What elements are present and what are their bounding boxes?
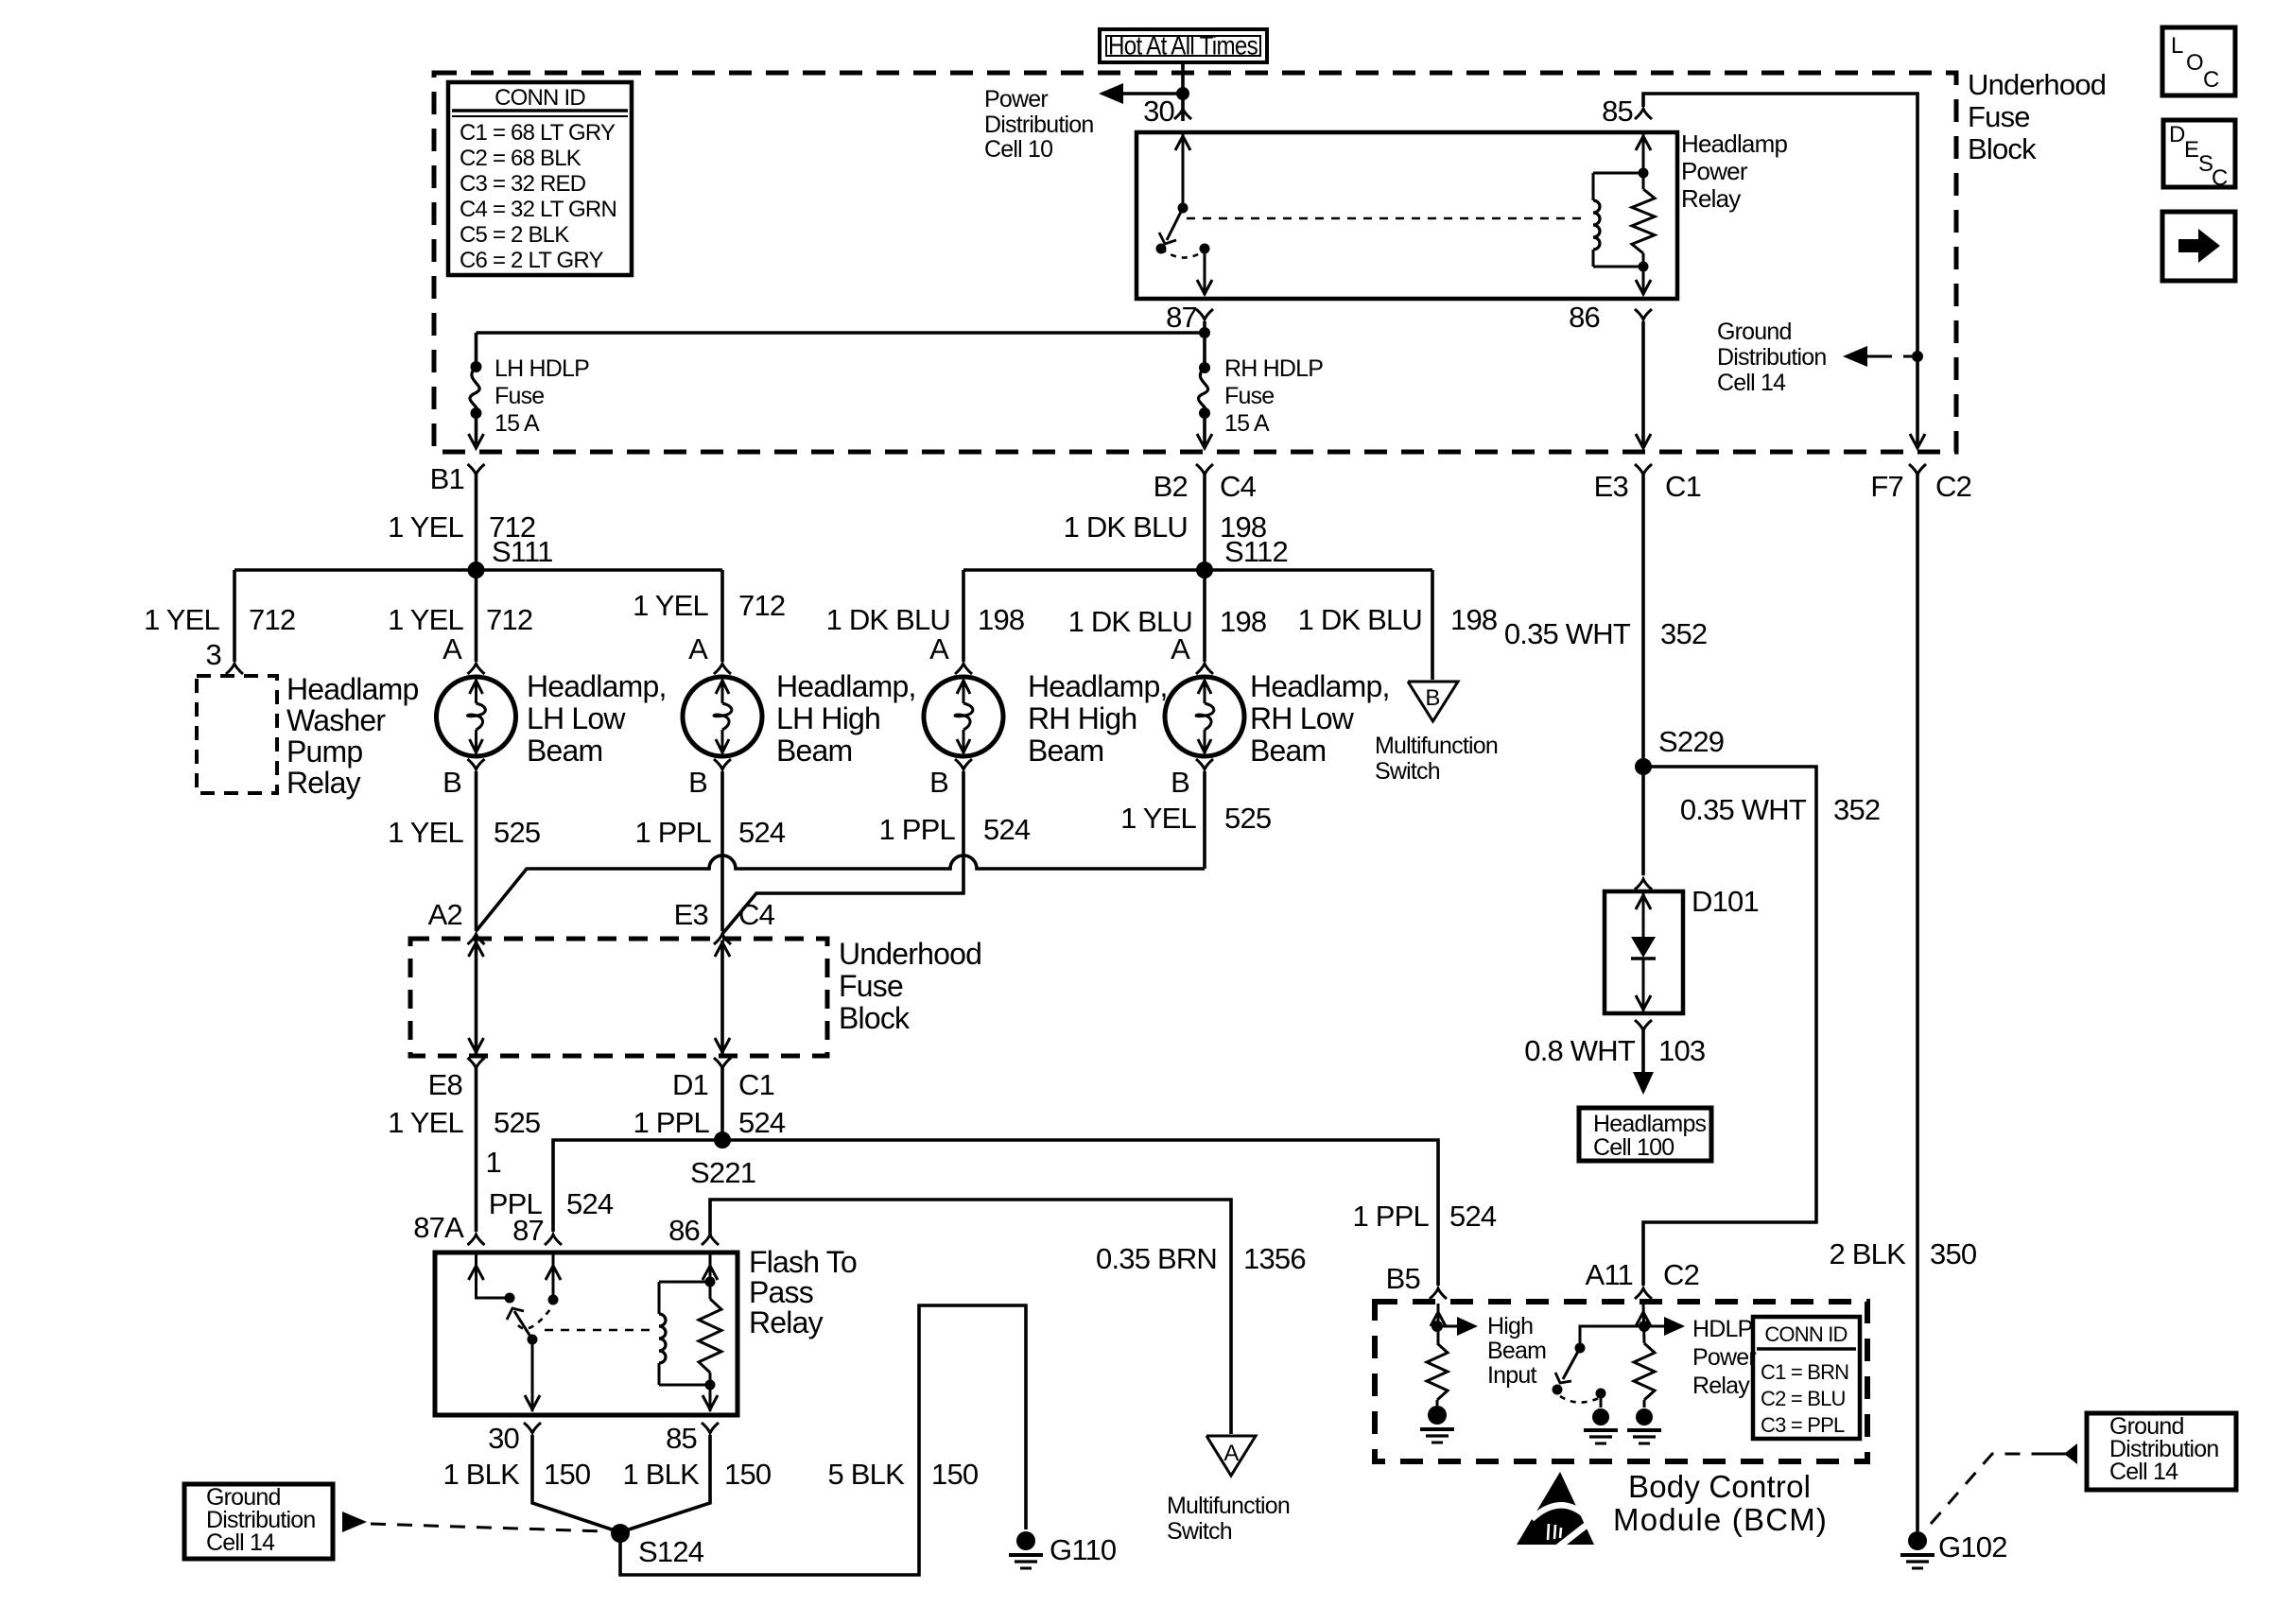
BCM switch feed: [1580, 1326, 1644, 1348]
connector B1: [468, 464, 485, 475]
svg-text:1356: 1356: [1243, 1242, 1306, 1275]
svg-text:A: A: [929, 632, 949, 665]
svg-text:1 YEL: 1 YEL: [388, 603, 463, 636]
relay K1 87A internal lead: [477, 1254, 511, 1298]
wire LH fuse to B1 exit: [475, 413, 478, 444]
svg-text:0.35 BRN: 0.35 BRN: [1096, 1242, 1217, 1275]
svg-text:150: 150: [544, 1458, 591, 1491]
svg-text:B: B: [1171, 766, 1189, 799]
DESC reference box: [2163, 120, 2235, 187]
svg-text:A: A: [442, 632, 462, 665]
relay K1 dashed throw arc: [518, 1305, 553, 1329]
wire S229 down to D101: [1641, 767, 1645, 875]
svg-text:RH Low: RH Low: [1250, 701, 1355, 735]
CONN ID table (BCM): [1753, 1317, 1860, 1439]
dashed reference link to Ground Distribution Cell 14 (top): [1877, 355, 1912, 358]
svg-text:Cell 10: Cell 10: [984, 136, 1052, 163]
wire RH fuse to B2 exit: [1203, 413, 1206, 444]
svg-text:1: 1: [486, 1146, 501, 1179]
svg-text:525: 525: [494, 816, 540, 849]
connector D101 bottom: [1635, 1020, 1652, 1030]
svg-text:Cell 100: Cell 100: [1593, 1134, 1674, 1161]
lamp E1 Headlamp LH Low Beam: [437, 677, 516, 756]
svg-text:524: 524: [738, 816, 786, 849]
svg-text:Underhood: Underhood: [1968, 68, 2106, 101]
wire S124 to G110 (5 BLK 150): [620, 1305, 1026, 1575]
connector pin 87 of relay: [1196, 309, 1213, 320]
svg-text:1 DK BLU: 1 DK BLU: [1298, 603, 1422, 636]
svg-text:198: 198: [978, 603, 1024, 636]
wire arrow at F7 exit: [1910, 434, 1925, 448]
connector pin 3 washer relay: [226, 664, 243, 674]
wire D101 to Headlamps cell arrow: [1641, 1030, 1645, 1076]
svg-text:Beam: Beam: [1250, 734, 1326, 768]
Hot At All Times power feed box: [1100, 29, 1267, 62]
BCM B5 pull resistor: [1427, 1343, 1448, 1400]
wire S112 horizontal: [963, 568, 1432, 572]
wire across to LH fuse: [477, 331, 1206, 335]
svg-text:30: 30: [1143, 95, 1174, 128]
svg-text:Relay: Relay: [1681, 184, 1741, 213]
connector pin B LH high: [714, 759, 731, 769]
connector B5: [1430, 1288, 1447, 1299]
svg-text:Relay: Relay: [749, 1305, 824, 1339]
relay U1 coil bottom rail: [1593, 266, 1643, 268]
svg-text:Headlamp: Headlamp: [286, 672, 418, 706]
splice S124: [611, 1524, 630, 1543]
svg-text:Distribution: Distribution: [1717, 344, 1826, 371]
connector E3/C4 (lower fuse block): [714, 934, 731, 944]
svg-text:LH Low: LH Low: [527, 701, 626, 735]
svg-text:C4 = 32 LT GRN: C4 = 32 LT GRN: [460, 197, 616, 222]
svg-text:A: A: [1171, 632, 1190, 665]
svg-text:86: 86: [1569, 301, 1600, 334]
relay K1 contact 87A dot: [505, 1293, 515, 1304]
wire S112 right branch to multifunction switch B: [1431, 570, 1434, 680]
svg-text:15 A: 15 A: [495, 410, 540, 437]
svg-text:Beam: Beam: [776, 734, 852, 768]
svg-text:Flash To: Flash To: [749, 1245, 857, 1279]
wire 85 down to S124: [626, 1435, 710, 1530]
svg-text:RH High: RH High: [1028, 701, 1136, 735]
relay K1 coil bottom rail: [659, 1384, 710, 1387]
svg-text:B5: B5: [1386, 1262, 1420, 1295]
wire branch to washer relay: [233, 570, 236, 662]
svg-text:0.35 WHT: 0.35 WHT: [1680, 793, 1807, 826]
svg-text:B2: B2: [1154, 470, 1188, 503]
svg-text:C6 = 2 LT GRY: C6 = 2 LT GRY: [460, 248, 603, 273]
svg-text:C1: C1: [738, 1068, 774, 1101]
svg-text:Hot At All Times: Hot At All Times: [1108, 31, 1258, 60]
multifunction switch reference triangle A: [1206, 1436, 1256, 1476]
dashed reference link to Ground Distribution Cell 14 (left): [371, 1524, 605, 1531]
wire E3/C4-D1/C1 through fuse block: [720, 941, 724, 1054]
svg-text:S221: S221: [690, 1156, 755, 1189]
relay K1 internal resistor: [699, 1299, 721, 1373]
svg-text:B: B: [1425, 685, 1439, 711]
relay U1 contact 87 dot: [1200, 244, 1210, 254]
svg-text:S112: S112: [1224, 535, 1288, 568]
relay K1 switch pivot dot: [528, 1335, 538, 1345]
BCM B5 input lead: [1437, 1304, 1440, 1343]
wire S111 right branch down to LH high lamp: [720, 570, 724, 662]
svg-text:3: 3: [206, 638, 221, 671]
svg-text:712: 712: [738, 589, 785, 622]
svg-text:1 PPL: 1 PPL: [633, 1106, 710, 1139]
wire RH low beam B across to A2 with hops: [1203, 771, 1206, 869]
svg-text:S229: S229: [1658, 725, 1724, 758]
lamp E2 Headlamp LH High Beam: [683, 677, 762, 756]
svg-text:352: 352: [1660, 617, 1707, 650]
wire pin87 down to fuse junction: [1203, 321, 1206, 368]
svg-text:Cell 14: Cell 14: [1717, 370, 1786, 396]
svg-text:Fuse: Fuse: [495, 383, 544, 409]
svg-text:Body Control: Body Control: [1628, 1469, 1811, 1504]
svg-text:1 YEL: 1 YEL: [388, 816, 463, 849]
splice S111: [468, 561, 485, 579]
ground G102: [1908, 1531, 1927, 1550]
svg-text:A11: A11: [1586, 1258, 1633, 1291]
svg-text:712: 712: [249, 603, 295, 636]
svg-text:C3 = PPL: C3 = PPL: [1761, 1413, 1845, 1437]
BCM dashed box: [1375, 1302, 1867, 1461]
underhood fuse block dashed boundary (top): [434, 73, 1956, 452]
relay K1 dashed actuation link: [545, 1329, 651, 1332]
connector 87 (flash relay): [545, 1235, 562, 1245]
svg-text:B1: B1: [430, 462, 464, 495]
svg-text:C5 = 2 BLK: C5 = 2 BLK: [460, 222, 569, 248]
wire S221 right branch to BCM B5: [722, 1140, 1438, 1286]
svg-text:150: 150: [724, 1458, 772, 1491]
svg-text:1 BLK: 1 BLK: [443, 1458, 521, 1491]
wire 30 down to S124: [532, 1435, 615, 1530]
ESD sensitivity symbol: [1517, 1472, 1594, 1545]
connector 86 (flash relay): [702, 1235, 719, 1245]
svg-text:Beam: Beam: [527, 734, 602, 768]
BCM high beam input arrow: [1437, 1325, 1465, 1328]
svg-text:0.8 WHT: 0.8 WHT: [1524, 1034, 1636, 1067]
svg-text:Distribution: Distribution: [984, 112, 1093, 138]
relay K1 pin86 internal lead: [709, 1254, 712, 1299]
svg-text:524: 524: [983, 813, 1031, 846]
svg-text:352: 352: [1833, 793, 1880, 826]
svg-text:CONN ID: CONN ID: [495, 85, 585, 111]
svg-text:Washer: Washer: [286, 703, 386, 737]
relay K1 coil top rail: [659, 1281, 710, 1284]
relay U1 dashed actuation link: [1187, 217, 1582, 220]
svg-text:5 BLK: 5 BLK: [828, 1458, 906, 1491]
connector pin A RH low: [1196, 664, 1213, 674]
svg-text:B: B: [442, 766, 461, 799]
connector pin B RH high: [955, 759, 972, 769]
wire RH high beam B jog to E3/C4: [722, 771, 963, 934]
svg-text:15 A: 15 A: [1224, 410, 1270, 437]
svg-text:1 YEL: 1 YEL: [388, 510, 463, 544]
wire D1/C1 down to S221: [720, 1068, 724, 1140]
svg-text:S124: S124: [638, 1535, 704, 1568]
svg-text:C4: C4: [1220, 470, 1257, 503]
svg-text:Headlamp: Headlamp: [1681, 130, 1787, 158]
svg-text:B: B: [929, 766, 948, 799]
connector pin B RH low: [1196, 759, 1213, 769]
svg-text:E: E: [2184, 137, 2198, 163]
svg-text:1 PPL: 1 PPL: [879, 813, 956, 846]
relay U1 pin30 internal lead with arrow: [1182, 134, 1185, 208]
svg-text:F7: F7: [1870, 470, 1903, 503]
wire 2 BLK 350 down right side: [1916, 475, 1919, 1531]
svg-text:87A: 87A: [413, 1211, 464, 1244]
svg-text:Relay: Relay: [286, 766, 361, 800]
svg-text:Power: Power: [984, 86, 1048, 112]
relay K1 switch arm: [514, 1311, 532, 1339]
LOC reference box: [2162, 27, 2235, 95]
svg-text:L: L: [2171, 33, 2183, 59]
Ground Distribution Cell 14 box (left): [184, 1484, 333, 1559]
svg-text:E3: E3: [674, 898, 708, 931]
wire S111 down to LH low lamp: [475, 570, 478, 662]
BCM switch contact dot: [1553, 1385, 1563, 1395]
relay U1 pin86 internal lead with arrow: [1642, 253, 1645, 295]
connector B2: [1196, 464, 1213, 475]
svg-text:S: S: [2198, 151, 2212, 177]
svg-text:C1 = 68 LT GRY: C1 = 68 LT GRY: [460, 120, 616, 146]
relay K1 Flash To Pass Relay box: [435, 1253, 737, 1415]
BCM switch ground: [1592, 1408, 1609, 1425]
BCM switch arm: [1563, 1348, 1580, 1379]
relay U1 switch arm: [1167, 208, 1183, 240]
connector pin 85 of relay: [1635, 109, 1652, 119]
relay U1 pin85 internal lead with arrow: [1642, 134, 1645, 189]
relay K1 pin85 internal lead: [709, 1373, 712, 1411]
svg-text:D101: D101: [1692, 885, 1759, 918]
wire E8 down to 87A: [475, 1068, 478, 1232]
svg-text:Headlamp,: Headlamp,: [527, 669, 667, 703]
svg-text:Multifunction: Multifunction: [1375, 733, 1498, 759]
svg-text:30: 30: [488, 1422, 519, 1455]
relay U1 contact 87A dot: [1156, 244, 1167, 254]
connector F7/C2: [1909, 464, 1926, 475]
connector pin A RH high: [955, 664, 972, 674]
connector pin A LH high: [714, 664, 731, 674]
connector D1/C1: [714, 1058, 731, 1068]
svg-text:103: 103: [1658, 1034, 1705, 1067]
svg-text:1 DK BLU: 1 DK BLU: [826, 603, 950, 636]
svg-text:E8: E8: [428, 1068, 462, 1101]
node junction at RH fuse top: [1199, 327, 1210, 338]
svg-text:86: 86: [668, 1214, 700, 1247]
relay U1 output lead to 87 with arrow: [1204, 249, 1206, 295]
svg-text:1 YEL: 1 YEL: [633, 589, 708, 622]
svg-text:G110: G110: [1050, 1533, 1117, 1566]
underhood fuse block dashed box (lower): [410, 939, 827, 1056]
connector E8: [468, 1058, 485, 1068]
svg-text:Pump: Pump: [286, 734, 362, 769]
svg-text:RH HDLP: RH HDLP: [1224, 355, 1323, 382]
svg-text:87: 87: [1166, 301, 1197, 334]
BCM second contact: [1596, 1389, 1606, 1399]
svg-text:525: 525: [494, 1106, 540, 1139]
svg-text:Pass: Pass: [749, 1275, 813, 1309]
connector pin 30 of relay: [1174, 109, 1191, 119]
BCM A11 input lead: [1643, 1304, 1644, 1343]
svg-text:D: D: [2169, 122, 2185, 147]
wire from Hot At All Times into fuse block: [1181, 62, 1185, 121]
connector 30 (flash relay): [524, 1423, 541, 1433]
svg-text:1 DK BLU: 1 DK BLU: [1064, 510, 1188, 544]
wire S111 horizontal: [234, 568, 722, 572]
connector pin 86 of relay: [1635, 309, 1652, 320]
svg-text:198: 198: [1220, 605, 1266, 638]
svg-text:Headlamp,: Headlamp,: [1028, 669, 1168, 703]
svg-text:C2: C2: [1663, 1258, 1699, 1291]
wire LH high beam B down to E3/C4: [720, 771, 724, 931]
CONN ID table (underhood fuse block): [448, 82, 632, 275]
svg-text:HDLP: HDLP: [1692, 1316, 1753, 1342]
svg-text:Switch: Switch: [1375, 758, 1440, 785]
BCM dashed throw arc: [1560, 1396, 1599, 1403]
svg-text:Cell 14: Cell 14: [206, 1529, 275, 1556]
svg-text:Input: Input: [1487, 1362, 1536, 1389]
BCM B5 ground: [1436, 1400, 1439, 1406]
ground G110: [1016, 1531, 1035, 1550]
diode D101 box: [1605, 891, 1683, 1013]
svg-text:Cell 14: Cell 14: [2109, 1459, 2178, 1485]
wire pin86 down to E3 exit: [1641, 321, 1645, 444]
svg-text:C4: C4: [738, 898, 775, 931]
svg-text:87: 87: [512, 1214, 544, 1247]
svg-text:198: 198: [1450, 603, 1497, 636]
svg-text:CONN ID: CONN ID: [1764, 1322, 1847, 1346]
svg-text:C3 = 32 RED: C3 = 32 RED: [460, 171, 586, 197]
svg-text:85: 85: [666, 1422, 697, 1455]
svg-text:C1 = BRN: C1 = BRN: [1761, 1360, 1848, 1384]
svg-text:2 BLK: 2 BLK: [1830, 1237, 1907, 1270]
wire B1 down to S111: [475, 475, 478, 570]
diode D101 element: [1642, 893, 1645, 944]
svg-text:1 YEL: 1 YEL: [1120, 802, 1196, 835]
splice S221: [714, 1132, 731, 1149]
svg-text:524: 524: [738, 1106, 786, 1139]
svg-text:A: A: [688, 632, 708, 665]
svg-text:LH HDLP: LH HDLP: [495, 355, 589, 382]
connector pin B LH low: [468, 759, 485, 769]
wire 86 to multifunction switch A: [710, 1200, 1231, 1434]
connector D101 top: [1635, 879, 1652, 890]
wire S112 left branch down to RH high lamp: [962, 570, 965, 662]
wire LH low beam B down to A2: [475, 771, 478, 931]
svg-text:Fuse: Fuse: [1224, 383, 1274, 409]
wire A2-E8 through fuse block: [475, 941, 478, 1054]
multifunction switch reference triangle B: [1408, 682, 1458, 721]
svg-text:C1: C1: [1665, 470, 1701, 503]
svg-text:524: 524: [1449, 1200, 1497, 1233]
svg-text:High: High: [1487, 1313, 1533, 1339]
svg-text:525: 525: [1224, 802, 1271, 835]
lamp E4 Headlamp RH Low Beam: [1165, 677, 1244, 756]
wire S112 down to RH low lamp: [1203, 570, 1206, 662]
connector A2: [468, 934, 485, 944]
svg-text:C2 = BLU: C2 = BLU: [1761, 1387, 1846, 1410]
relay K1 contact 87 dot: [548, 1295, 559, 1305]
svg-text:350: 350: [1930, 1237, 1977, 1270]
svg-text:G102: G102: [1938, 1530, 2007, 1564]
svg-text:Multifunction: Multifunction: [1167, 1493, 1290, 1519]
wire arrow to Power Distribution Cell 10: [1121, 92, 1183, 95]
svg-text:Block: Block: [1968, 132, 2037, 165]
lamp E3 Headlamp RH High Beam: [924, 677, 1003, 756]
dashed reference link to Ground Distribution Cell 14 (right): [1931, 1454, 2042, 1524]
svg-text:C2: C2: [1935, 470, 1971, 503]
connector E3 (fuse block bottom): [1635, 464, 1652, 475]
svg-text:LH High: LH High: [776, 701, 880, 735]
svg-text:Headlamp,: Headlamp,: [1250, 669, 1390, 703]
svg-text:S111: S111: [492, 535, 553, 568]
svg-text:Beam: Beam: [1028, 734, 1103, 768]
forward arrow box: [2162, 212, 2235, 281]
svg-text:C: C: [2212, 165, 2228, 191]
node dot ground-distribution tap: [1912, 351, 1923, 362]
wire S229 branch to BCM A11: [1643, 767, 1816, 1286]
svg-text:524: 524: [566, 1187, 614, 1220]
svg-text:Beam: Beam: [1487, 1338, 1546, 1364]
relay U1 coil: [1593, 200, 1600, 250]
fuse F1 LH HDLP 15A: [471, 361, 482, 372]
relay U1 internal resistor: [1632, 189, 1655, 253]
svg-text:1 PPL: 1 PPL: [635, 816, 712, 849]
splice S229: [1635, 758, 1652, 775]
BCM A11 ground: [1643, 1400, 1646, 1408]
BCM A11 resistor: [1634, 1343, 1655, 1400]
svg-text:A2: A2: [428, 898, 462, 931]
connector 85 (flash relay): [702, 1423, 719, 1433]
svg-text:A: A: [1223, 1441, 1239, 1466]
svg-text:Power: Power: [1692, 1344, 1756, 1371]
splice S112: [1196, 561, 1213, 579]
svg-text:Ground: Ground: [1717, 319, 1792, 345]
svg-text:712: 712: [486, 603, 532, 636]
relay K2 Headlamp Washer Pump Relay dashed box: [197, 676, 277, 793]
svg-text:E3: E3: [1594, 470, 1628, 503]
BCM HDLP power relay arrow: [1644, 1325, 1672, 1328]
connector 87A: [468, 1235, 485, 1245]
svg-text:1 PPL: 1 PPL: [1353, 1200, 1430, 1233]
fuse F2 RH HDLP 15A: [1199, 362, 1210, 373]
connector A11/C2: [1635, 1288, 1652, 1299]
node junction at pin 30 feed: [1176, 87, 1189, 100]
relay U1 coil top rail: [1593, 172, 1643, 175]
relay U1 switch pivot dot: [1178, 203, 1189, 214]
Ground Distribution Cell 14 box (right): [2087, 1413, 2236, 1490]
svg-text:85: 85: [1602, 95, 1633, 128]
svg-text:1 YEL: 1 YEL: [144, 603, 219, 636]
svg-text:Relay: Relay: [1692, 1373, 1750, 1399]
relay K1 pin30 internal lead: [531, 1339, 534, 1411]
svg-text:Block: Block: [839, 1001, 911, 1035]
svg-text:150: 150: [931, 1458, 979, 1491]
svg-text:1 BLK: 1 BLK: [623, 1458, 701, 1491]
connector pin A LH low: [468, 664, 485, 674]
svg-text:B: B: [688, 766, 707, 799]
svg-text:Power: Power: [1681, 157, 1748, 185]
Headlamps Cell 100 reference box: [1579, 1108, 1711, 1161]
wire E3/C1 down to S229: [1641, 475, 1645, 767]
svg-text:C2 = 68 BLK: C2 = 68 BLK: [460, 146, 581, 171]
svg-text:Headlamps: Headlamps: [1593, 1111, 1707, 1137]
svg-text:Module (BCM): Module (BCM): [1613, 1502, 1828, 1537]
relay K1 87 internal lead: [552, 1254, 555, 1300]
svg-text:Switch: Switch: [1167, 1518, 1232, 1545]
relay U1 Headlamp Power Relay box: [1136, 132, 1677, 299]
